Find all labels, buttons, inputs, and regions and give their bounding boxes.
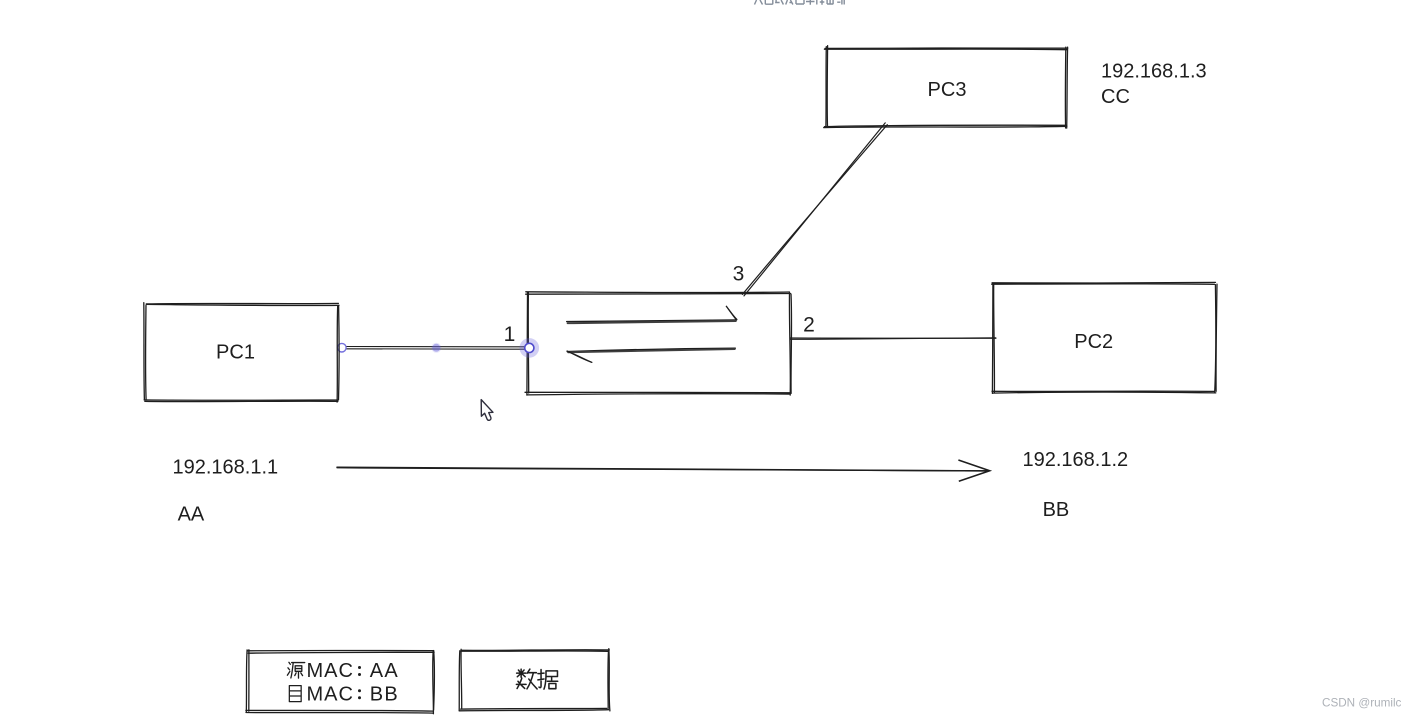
svg-text:CSDN @rumilc: CSDN @rumilc [1322, 697, 1402, 710]
wire PC3-switch [742, 125, 887, 295]
svg-text:PC1: PC1 [216, 342, 255, 364]
PC1 box [146, 304, 339, 305]
top hint text (clipped) [755, 0, 763, 5]
svg-text:AA: AA [178, 503, 205, 525]
frame data box [461, 649, 609, 652]
data flow arrow [337, 467, 986, 471]
svg-text:BB: BB [1043, 499, 1070, 521]
svg-text:192.168.1.1: 192.168.1.1 [173, 457, 279, 479]
svg-text:MAC: MAC [307, 683, 354, 705]
wire PC1-switch [342, 346, 527, 348]
svg-text:MAC: MAC [307, 660, 354, 682]
arrow right inside switch [567, 320, 737, 322]
svg-text:BB: BB [370, 683, 399, 705]
data label (shu ju) [516, 669, 537, 689]
svg-text:192.168.1.2: 192.168.1.2 [1023, 449, 1129, 471]
svg-text:3: 3 [733, 263, 745, 286]
PC2 box [992, 283, 1215, 286]
svg-text:PC2: PC2 [1074, 331, 1113, 353]
svg-text:192.168.1.3: 192.168.1.3 [1101, 61, 1207, 83]
PC3 box [825, 47, 1068, 49]
wire switch-PC2 [790, 338, 996, 340]
frame MAC box [248, 650, 434, 652]
wire midpoint handle [431, 343, 441, 353]
svg-text:CC: CC [1101, 86, 1130, 108]
svg-text:1: 1 [504, 323, 516, 346]
svg-text:2: 2 [803, 314, 815, 337]
svg-text:AA: AA [370, 660, 399, 682]
arrow left inside switch [567, 348, 735, 351]
port1 endpoint circle [525, 343, 534, 352]
svg-text:PC3: PC3 [928, 79, 967, 101]
switch box [526, 293, 791, 296]
mouse cursor [481, 400, 493, 421]
frame source MAC row [287, 662, 304, 678]
frame dest MAC row [289, 686, 301, 702]
port1 hover halo [520, 338, 540, 358]
wire start endpoint circle [338, 343, 347, 352]
